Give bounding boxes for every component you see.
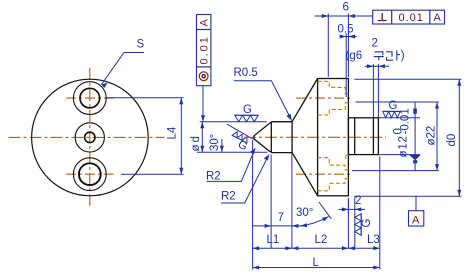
svg-text:0.01: 0.01 <box>399 12 424 24</box>
dim 2 g6 line <box>365 65 390 67</box>
svg-text:L3: L3 <box>367 234 380 246</box>
FCF left box <box>197 15 211 86</box>
side view outline: cone tip and small cone <box>254 124 269 151</box>
dim o12 line <box>414 102 416 171</box>
svg-text:ø12: ø12 <box>398 135 410 157</box>
left view: top hole centerline <box>66 97 114 99</box>
svg-text:R2: R2 <box>221 191 236 203</box>
svg-text:S: S <box>137 39 145 51</box>
shaft groove line <box>354 118 356 155</box>
FCF right perpendicularity symbol <box>378 13 387 21</box>
fillet small cone to cylinder top <box>269 122 272 153</box>
bottom dim 2 line <box>339 208 366 210</box>
leader R2 second <box>221 155 269 204</box>
svg-text:A: A <box>434 12 442 24</box>
dim row L1 L2 L3 <box>253 247 380 249</box>
dim row L <box>253 267 380 269</box>
FCF left leader stem <box>202 86 204 122</box>
label o12 with tolerance <box>393 108 412 157</box>
svg-text:0.01: 0.01 <box>199 35 211 64</box>
svg-text:0.5: 0.5 <box>338 24 354 36</box>
left view: bottom hole outer circle <box>73 158 106 191</box>
dim od extension bottom <box>197 151 268 153</box>
side view main axis centerline <box>244 136 386 138</box>
left view: top hole inner circle <box>80 88 100 108</box>
svg-text:R0.5: R0.5 <box>234 67 258 79</box>
svg-text:G: G <box>243 104 252 116</box>
svg-text:): ) <box>401 50 405 62</box>
small cylinder top edge <box>271 121 292 123</box>
leader S <box>102 53 145 85</box>
svg-text:7: 7 <box>278 212 284 224</box>
dim 2 g6 extensions <box>372 64 374 118</box>
bottom dim 2 extension left <box>347 199 349 214</box>
svg-text:ø22: ø22 <box>426 126 438 146</box>
leader R0.5 <box>234 81 292 121</box>
hidden relief near face <box>346 155 349 160</box>
dim 6 line <box>315 15 373 17</box>
shaft block <box>348 118 378 155</box>
left view: top hole outer circle <box>73 82 106 115</box>
dim d0 line <box>458 79 460 196</box>
svg-text:L1: L1 <box>267 234 280 246</box>
angular dim arm vertical <box>221 139 223 152</box>
left view: vertical centerline <box>89 68 91 206</box>
svg-text:L4: L4 <box>167 126 179 139</box>
hidden bore top hole upper <box>318 81 349 191</box>
ext vertical shaft end <box>379 157 381 270</box>
big cone upper flank <box>292 79 318 122</box>
svg-text:G: G <box>361 219 373 228</box>
svg-text:A: A <box>412 215 420 227</box>
dim 6 extension left <box>327 14 329 78</box>
hidden bore bottom hole upper <box>318 158 349 170</box>
big cone lower flank <box>292 153 318 196</box>
svg-text:-0.01: -0.01 <box>399 108 411 134</box>
surface symbol G above shaft <box>383 100 401 118</box>
ext vertical cylinder left <box>270 155 272 249</box>
face extension line <box>347 14 349 78</box>
dim L4 extension top <box>107 97 184 99</box>
FCF left concentricity symbol <box>199 72 208 81</box>
left view: center hole outer circle <box>75 123 104 152</box>
dim L4 line <box>180 98 182 175</box>
dim od extension top <box>200 121 267 123</box>
dim L4 extension bottom <box>121 173 184 175</box>
hidden bore bottom hole lower <box>318 179 349 191</box>
svg-text:ød: ød <box>190 134 202 151</box>
o12 bottom big arrow <box>409 155 421 160</box>
FCF right leader <box>348 15 372 17</box>
hangul 구간 drawn <box>374 50 400 60</box>
o12 extension bottom <box>378 154 420 156</box>
groove extension line long <box>354 196 356 248</box>
left view: bottom hole centerline <box>66 173 114 175</box>
o22 extension top <box>356 101 439 103</box>
big cylinder <box>318 79 349 196</box>
dim 0.5 line <box>340 36 357 38</box>
d0 extension bottom <box>355 195 462 197</box>
side view bottom hole axis <box>296 173 353 175</box>
rotated surface symbol G at groove <box>355 214 361 236</box>
ext vertical cylinder right <box>291 153 293 248</box>
side view top hole axis <box>296 97 353 99</box>
small cylinder bottom edge <box>271 152 292 154</box>
leader R2 first <box>207 148 256 181</box>
shaft g6 zone line <box>372 118 374 155</box>
svg-text:30°: 30° <box>209 134 221 151</box>
ext vertical big cylinder right <box>347 198 349 248</box>
svg-text:30°: 30° <box>296 207 313 219</box>
flank extension line bottom <box>319 202 331 219</box>
o12 extension top <box>378 117 420 119</box>
svg-text:2: 2 <box>372 38 378 50</box>
dim 7 line <box>253 225 302 227</box>
surface symbol G above small cylinder <box>235 104 258 122</box>
svg-text:R2: R2 <box>206 171 221 183</box>
left view: bottom hole inner circle <box>79 163 101 185</box>
d0 extension top <box>354 78 461 80</box>
datum A box <box>409 211 424 226</box>
left view: outer circle <box>32 79 149 196</box>
o12 top arrow blob <box>413 109 417 114</box>
svg-text:G: G <box>389 100 398 112</box>
datum A stem <box>415 196 417 210</box>
dim 0.5 extension <box>345 34 347 98</box>
ext vertical tip <box>252 140 254 270</box>
svg-text:6: 6 <box>343 2 349 14</box>
svg-text:d0: d0 <box>446 134 458 147</box>
left view: horizontal centerline <box>9 136 165 138</box>
svg-text:L: L <box>313 257 320 269</box>
svg-text:2: 2 <box>355 195 361 207</box>
svg-text:(g6: (g6 <box>346 50 363 62</box>
angular dim flank extension <box>227 124 254 140</box>
small cylinder right edge <box>291 122 293 153</box>
dim o22 line <box>436 102 438 171</box>
angular dim arc bottom <box>300 217 328 226</box>
svg-text:A: A <box>199 19 211 27</box>
left view: center hole inner circle <box>85 132 95 142</box>
o22 extension bottom <box>352 170 439 172</box>
hidden bore top hole lower <box>318 103 349 116</box>
svg-text:L2: L2 <box>315 234 328 246</box>
surface symbol on cone flank <box>227 130 251 153</box>
dim od line <box>201 122 203 153</box>
FCF right box <box>373 10 445 24</box>
